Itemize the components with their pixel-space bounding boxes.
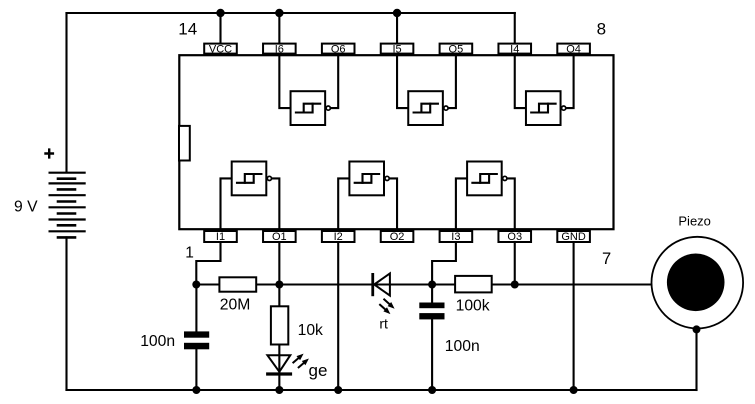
wire pin GND down to ground rail [573,242,575,390]
node B dot (I3/C2/R3/LED) [428,281,436,289]
node A dot (I1/R1/C1) [192,281,200,289]
pin box O6 (top row) [322,43,355,55]
resistor R1 20M [219,277,256,291]
battery BT1 minus terminal wire [65,237,67,390]
capacitor C1 100n plates [184,331,209,349]
svg-text:100k: 100k [456,298,490,315]
LED D1 colour label rt [379,316,388,332]
battery BT1 plus sign label [44,148,54,158]
pin box I6 (top row) [263,43,296,55]
pin number 8 label [597,20,606,39]
piezo label [678,213,711,228]
resistor R2 value label 10k [298,322,323,339]
node dot LED D2 on ground rail [275,386,283,394]
Schmitt inverter gate U1E (I5 to O5) [397,54,456,126]
node dot O1/R1/R2 [275,281,283,289]
wire from pin I3 jog down-left to node B [432,242,456,285]
svg-text:9 V: 9 V [14,199,38,216]
wire capacitor C2 leg node B to ground rail [431,285,433,391]
Schmitt inverter gate U1D (I4 to O4) [515,54,574,126]
battery BT1 9V, + terminal wire [65,13,67,173]
node dot GND pin on ground rail [570,386,578,394]
LED D2 emission arrows [293,354,309,368]
svg-text:VCC: VCC [209,43,232,55]
pin box I1 (bottom row) [204,231,237,243]
Schmitt inverter gate U1F (I6 to O6) [279,54,338,126]
node dot C1 on ground rail [192,386,200,394]
wire drop from top rail corner to pin I4 [514,13,516,43]
pin box O3 (bottom row) [498,231,531,243]
wire drop from top rail to pin VCC [219,13,221,43]
LED D2 colour label ge [309,361,328,380]
svg-text:100n: 100n [140,333,175,350]
pin box O1 (bottom row) [263,231,296,243]
pin box I2 (bottom row) [322,231,355,243]
wire pin I2 down to ground rail [337,242,339,390]
wire bottom ground rail [67,389,697,391]
wire middle horizontal net (node A to piezo) [196,283,670,285]
svg-text:14: 14 [178,20,197,39]
node dot piezo bottom terminal [693,325,701,333]
resistor R3 value label 100k [456,298,490,315]
svg-text:100n: 100n [445,338,480,355]
svg-text:8: 8 [597,20,606,39]
wire drop from top rail to pin I5 [396,13,398,43]
pin number 1 label [185,245,194,262]
pin number 14 label [178,20,197,39]
svg-text:10k: 10k [298,322,323,339]
LED D1 emission arrows [379,299,394,314]
node junction dot on top rail at VCC [216,9,224,17]
capacitor C1 value label 100n [140,333,175,350]
node dot I2 on ground rail [334,386,342,394]
node junction dot on top rail at I5 [393,9,401,17]
wire pin O3 down to middle net [514,242,516,285]
piezo transducer LS1 inner disc [667,253,725,311]
pin box O4 (top row) [557,43,590,55]
piezo transducer LS1 outer ring [652,237,744,329]
IC U1 index marker rectangle on left edge [179,126,190,161]
svg-text:O2: O2 [390,231,405,243]
capacitor C2 100n plates [419,303,444,320]
pin box VCC (top row) [204,43,237,55]
Schmitt inverter gate U1A (I1 to O1) [221,162,280,231]
node dot O3/R3/piezo net [511,281,519,289]
node dot C2 on ground rail [428,386,436,394]
resistor R3 100k [455,276,492,293]
resistor R2 10k [271,306,288,344]
wire drop from top rail to pin I6 [278,13,280,43]
resistor R1 value label 20M [220,297,251,314]
svg-text:rt: rt [379,316,388,332]
LED D1 red (rt) symbol [373,273,390,296]
svg-text:ge: ge [309,361,328,380]
Schmitt inverter gate U1B (I2 to O2) [338,162,397,231]
wire piezo bottom terminal to ground rail [695,329,697,390]
pin box I5 (top row) [381,43,414,55]
wire top supply rail [67,12,515,14]
svg-text:7: 7 [602,250,611,268]
pin box O5 (top row) [440,43,473,55]
LED D2 yellow (ge) symbol [266,355,292,374]
pin box O2 (bottom row) [381,231,414,243]
battery BT1 cell plates [49,173,86,238]
pin number 7 label [602,250,611,268]
pin box GND (bottom row) [557,231,590,243]
svg-text:1: 1 [185,245,194,262]
pin box I3 (bottom row) [440,231,473,243]
svg-text:20M: 20M [220,297,251,314]
capacitor C2 value label 100n [445,338,480,355]
node junction dot on top rail at I6 [275,9,283,17]
wire from pin I1 jog down-left to node A [196,242,220,285]
wire pin O1 down through 10k/LED to ground rail [278,242,280,390]
Schmitt inverter gate U1C (I3 to O3) [456,162,515,231]
IC U1 body (hex Schmitt-trigger inverter) [179,55,613,229]
svg-text:Piezo: Piezo [678,213,711,228]
wire capacitor C1 leg node A to ground rail [195,285,197,391]
pin box I4 (top row) [498,43,531,55]
battery BT1 value label 9 V [14,199,38,216]
